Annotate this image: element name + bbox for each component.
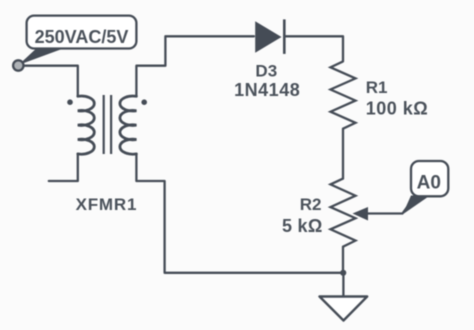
callout box A0 (411, 161, 448, 196)
callout pointer A0 (403, 196, 431, 215)
potentiometer R2 zigzag (331, 179, 356, 247)
wire secondary bottom to bottom node (136, 154, 343, 273)
terminal (gray circle) (13, 60, 23, 70)
transformer secondary phasing dot (141, 99, 147, 105)
transformer primary phasing dot (67, 99, 73, 105)
svg-text:100 kΩ: 100 kΩ (366, 99, 428, 119)
wire top-left from terminal to primary top (18, 66, 78, 97)
svg-text:1N4148: 1N4148 (234, 80, 300, 100)
diode D3 triangle (255, 21, 281, 52)
callout box 250VAC/5V (27, 16, 137, 49)
wire R1 bottom to R2 top (342, 129, 344, 179)
potentiometer wiper wire (366, 198, 414, 214)
potentiometer wiper arrow head (353, 207, 369, 221)
svg-text:250VAC/5V: 250VAC/5V (35, 27, 129, 47)
transformer secondary coil (120, 96, 136, 154)
svg-text:R1: R1 (366, 78, 388, 97)
svg-text:R2: R2 (300, 195, 322, 214)
transformer primary coil (78, 96, 94, 154)
svg-text:D3: D3 (255, 62, 277, 81)
diode D3 cathode bar (283, 19, 286, 54)
svg-text:XFMR1: XFMR1 (76, 195, 138, 214)
wire secondary top to diode (136, 36, 254, 96)
svg-text:5 kΩ: 5 kΩ (282, 216, 323, 236)
resistor R1 zigzag (331, 61, 356, 128)
wire diode cathode to R1 top (284, 36, 343, 61)
wire primary bottom stub (49, 154, 78, 181)
transformer core (103, 95, 105, 154)
junction dot bottom node (340, 270, 346, 276)
svg-text:A0: A0 (417, 173, 441, 194)
wire R2 bottom to bottom node (342, 247, 344, 273)
callout pointer 250VAC/5V (19, 45, 71, 65)
wire bottom node to ground (342, 273, 344, 297)
ground symbol (320, 297, 368, 321)
